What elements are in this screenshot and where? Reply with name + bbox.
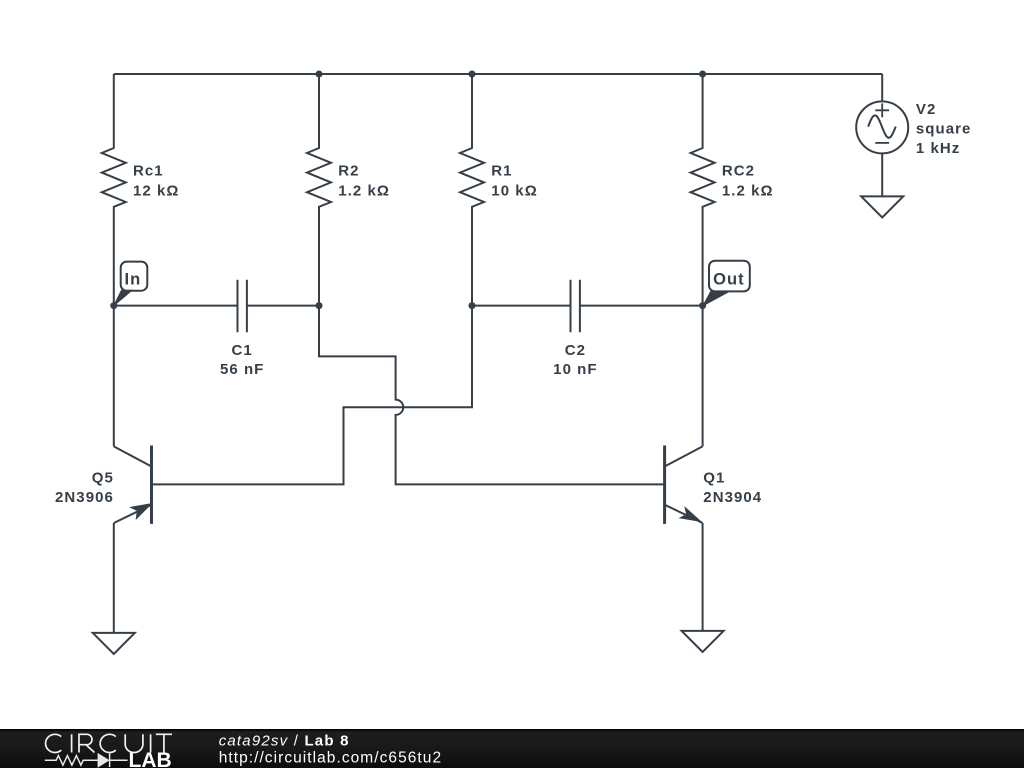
CircuitLab logo CIRCUIT (46, 734, 172, 752)
ground under Q5 (93, 633, 135, 654)
wire R1 node to C2 (472, 305, 571, 307)
wire In node to C1 (114, 305, 238, 307)
node Out junction (699, 302, 706, 309)
svg-text:1.2 kΩ: 1.2 kΩ (338, 182, 390, 199)
capacitor C1 (238, 280, 247, 333)
svg-text:2N3904: 2N3904 (703, 489, 762, 506)
wire Q5 emitter lead (113, 523, 115, 633)
footer url (219, 750, 442, 767)
wire Q5 collector lead (113, 306, 115, 447)
svg-text:In: In (125, 271, 142, 289)
svg-text:Out: Out (713, 271, 745, 289)
voltage source V2 (856, 101, 908, 153)
svg-text:R2: R2 (338, 163, 359, 180)
resistor R2 (307, 74, 331, 306)
label C1 value (220, 342, 264, 378)
label Q1 value (703, 469, 762, 506)
label R1 (491, 163, 537, 200)
wire Q1 collector lead (702, 306, 704, 447)
label C2 value (553, 342, 597, 378)
CircuitLab logo resistor-diode glyph (45, 754, 128, 768)
svg-text:R1: R1 (491, 163, 512, 180)
label R2 (338, 163, 390, 200)
svg-text:12 kΩ: 12 kΩ (133, 182, 179, 199)
wire V2 bottom lead (881, 153, 883, 196)
wire R2 to Q1 base with hop (319, 306, 665, 484)
wire R1 to Q5 base (152, 306, 473, 484)
footer title cata92sv / Lab 8 (219, 732, 350, 749)
label V2 value (916, 101, 972, 157)
node junction rail-R2 (316, 71, 323, 78)
wire Q1 emitter lead (702, 523, 704, 631)
transistor Q5 (114, 446, 152, 524)
capacitor C2 (571, 280, 580, 333)
label RC2 (722, 163, 774, 200)
flag Out (703, 261, 750, 306)
label Rc1 (133, 163, 179, 200)
CircuitLab logo LAB (129, 749, 172, 768)
node In junction (110, 302, 117, 309)
svg-text:10 nF: 10 nF (553, 361, 597, 378)
wire top supply rail (114, 73, 882, 75)
node junction rail-RC2 (699, 71, 706, 78)
resistor R1 (460, 74, 484, 306)
label In text (125, 271, 142, 289)
svg-text:Q1: Q1 (703, 469, 725, 486)
resistor RC2 (691, 74, 715, 306)
wire V2 top lead (881, 74, 883, 101)
footer bar (0, 729, 1024, 768)
svg-text:RC2: RC2 (722, 163, 755, 180)
node junction rail-R1 (469, 71, 476, 78)
svg-text:C1: C1 (232, 342, 253, 359)
ground under V2 (861, 196, 903, 217)
svg-text:2N3906: 2N3906 (55, 489, 114, 506)
svg-text:56 nF: 56 nF (220, 361, 264, 378)
wire C1 to R2 node (247, 305, 319, 307)
svg-text:cata92sv / Lab 8: cata92sv / Lab 8 (219, 732, 350, 749)
svg-text:1.2 kΩ: 1.2 kΩ (722, 182, 774, 199)
resistor Rc1 (102, 74, 126, 306)
svg-text:1 kHz: 1 kHz (916, 140, 960, 157)
ground under Q1 (682, 631, 724, 652)
svg-text:http://circuitlab.com/c656tu2: http://circuitlab.com/c656tu2 (219, 750, 442, 767)
svg-text:10 kΩ: 10 kΩ (491, 182, 537, 199)
svg-text:LAB: LAB (129, 749, 172, 768)
label Out text (713, 271, 745, 289)
svg-text:Rc1: Rc1 (133, 163, 164, 180)
label Q5 value (55, 469, 114, 506)
svg-text:V2: V2 (916, 101, 936, 118)
svg-text:C2: C2 (565, 342, 586, 359)
svg-text:Q5: Q5 (92, 469, 114, 486)
svg-text:square: square (916, 121, 972, 138)
node junction R2-C1 (316, 302, 323, 309)
transistor Q1 (665, 446, 703, 524)
node junction R1-C2 (469, 302, 476, 309)
flag In (114, 262, 148, 306)
wire C2 to Out node (580, 305, 703, 307)
